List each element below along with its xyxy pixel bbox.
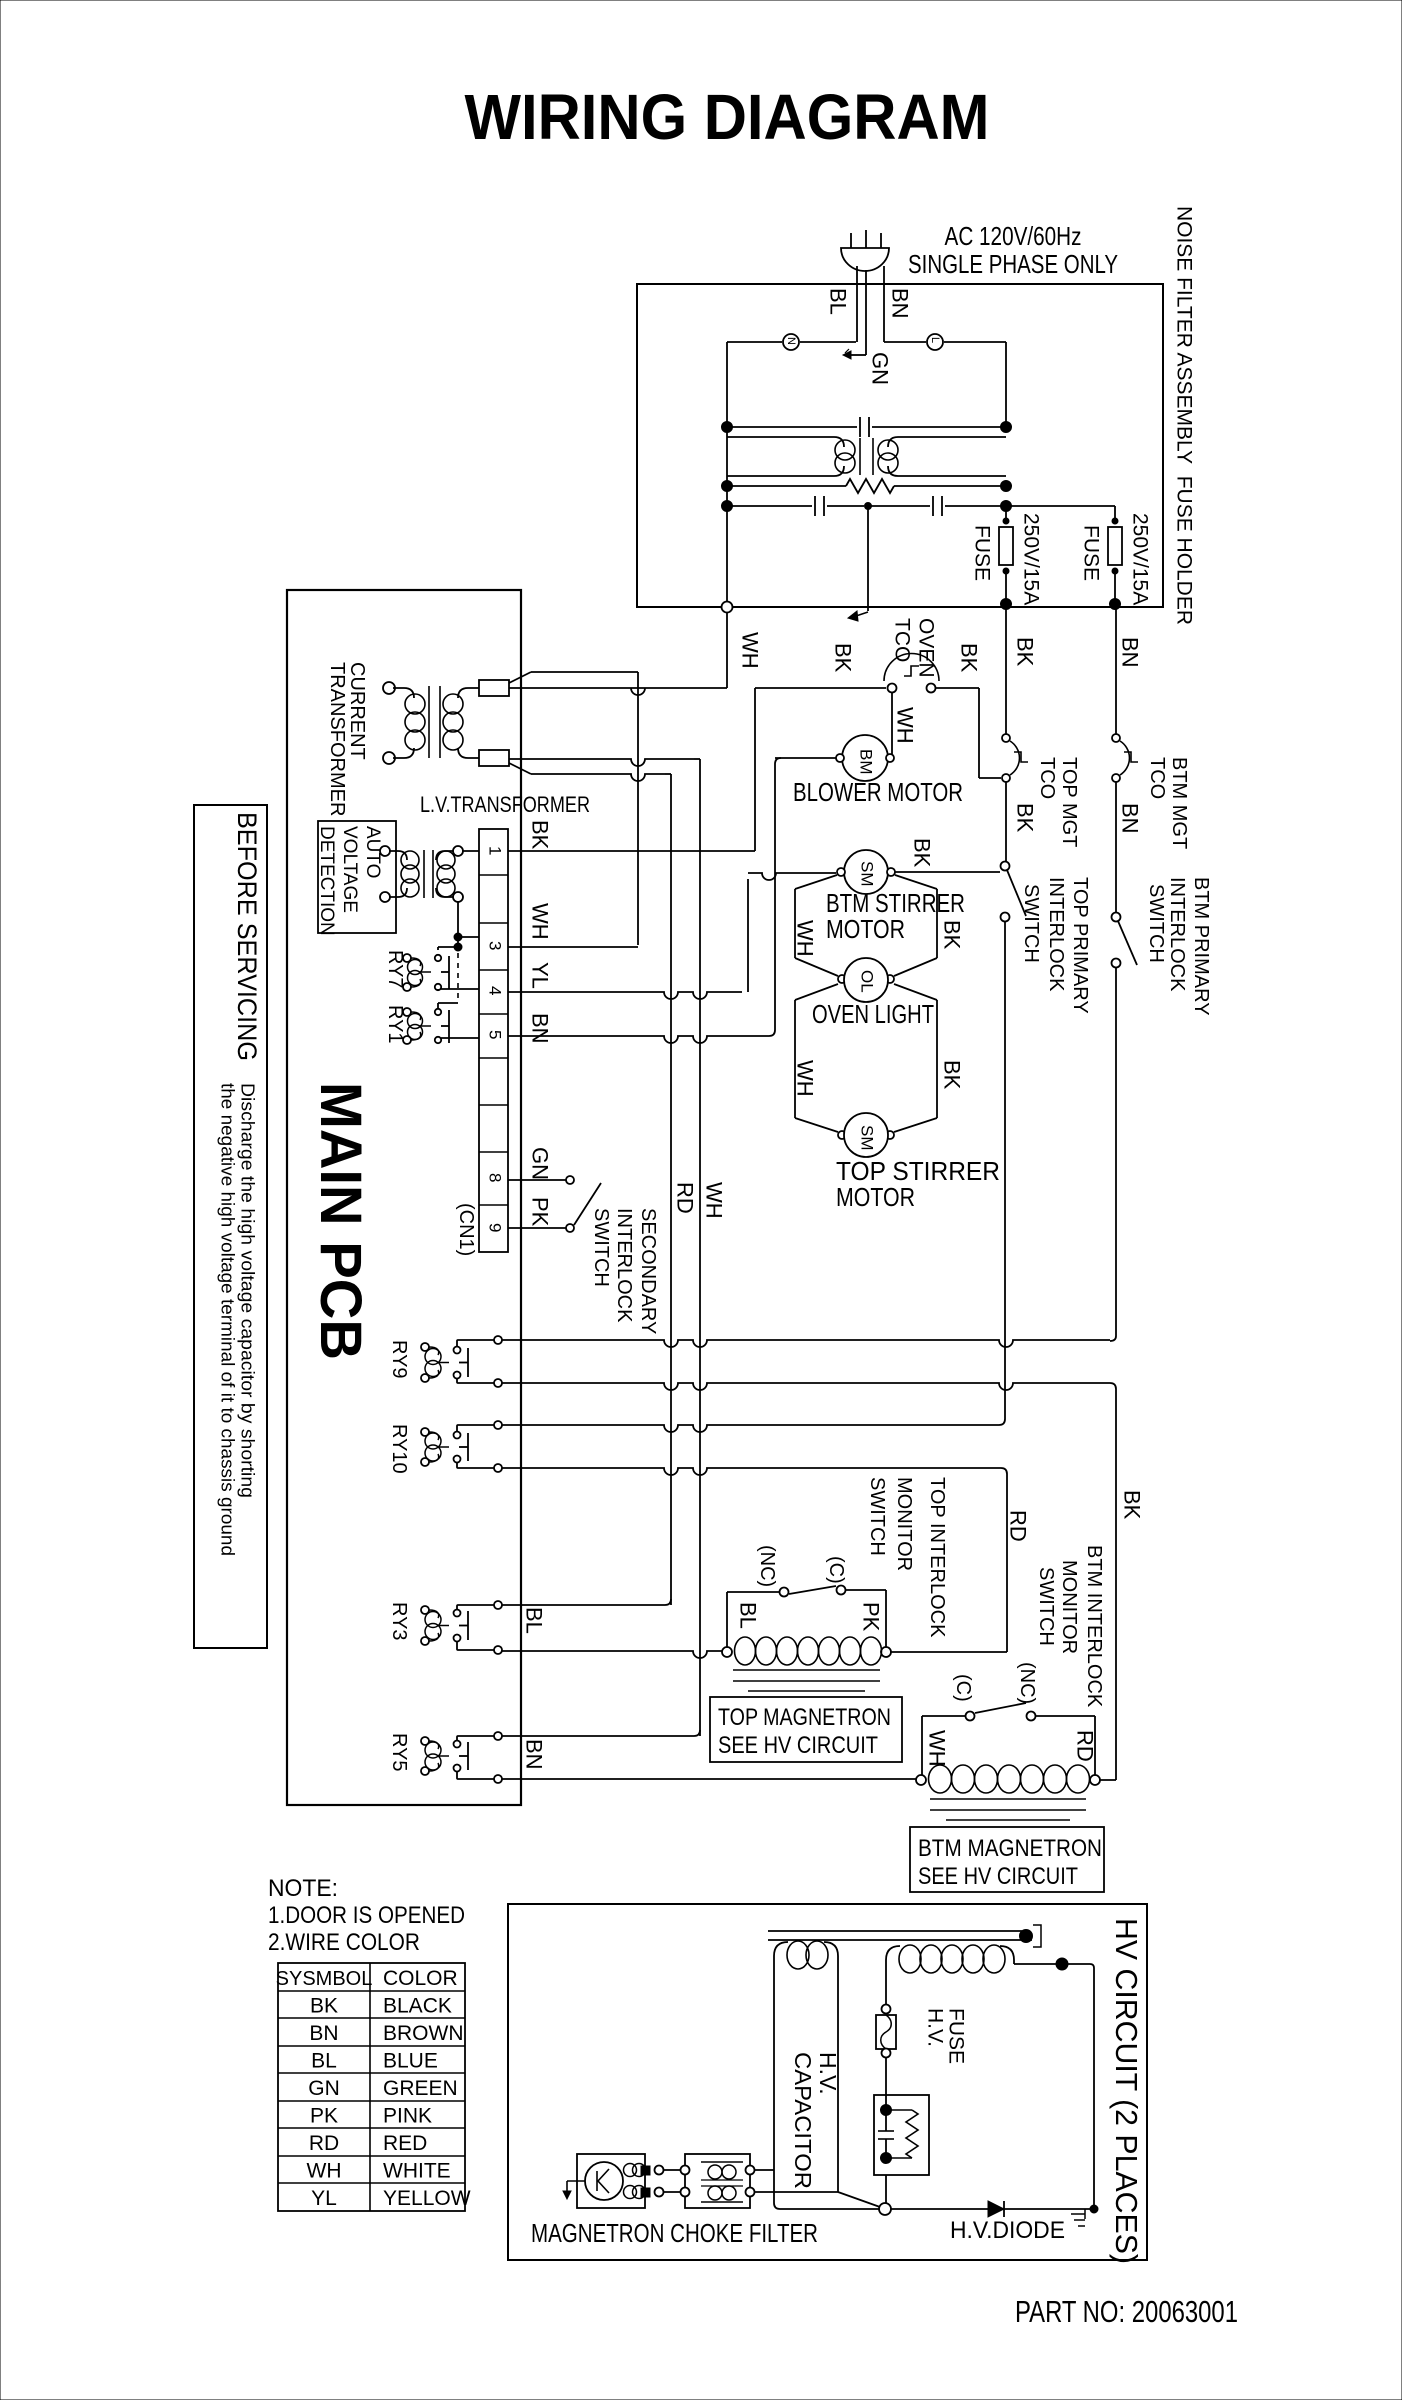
svg-text:9: 9	[486, 1223, 505, 1232]
svg-text:TCO: TCO	[1146, 757, 1168, 799]
svg-text:PK: PK	[527, 1197, 552, 1227]
svg-text:2.WIRE COLOR: 2.WIRE COLOR	[268, 1929, 420, 1956]
svg-text:BK: BK	[1012, 637, 1037, 667]
svg-text:YL: YL	[311, 2187, 337, 2210]
svg-text:RY3: RY3	[388, 1602, 410, 1641]
svg-text:SWITCH: SWITCH	[1145, 884, 1167, 963]
svg-text:BTM MAGNETRON: BTM MAGNETRON	[918, 1835, 1102, 1862]
svg-text:BK: BK	[1119, 1490, 1144, 1520]
svg-text:the negative high voltage term: the negative high voltage terminal of it…	[217, 1083, 237, 1556]
svg-text:SWITCH: SWITCH	[866, 1477, 888, 1556]
svg-text:N: N	[785, 337, 797, 345]
svg-text:SEE HV CIRCUIT: SEE HV CIRCUIT	[918, 1863, 1078, 1890]
svg-text:PK: PK	[858, 1602, 883, 1632]
svg-text:SYSMBOL: SYSMBOL	[276, 1968, 373, 1990]
svg-text:SINGLE PHASE ONLY: SINGLE PHASE ONLY	[908, 249, 1118, 279]
svg-text:BLUE: BLUE	[383, 2050, 438, 2073]
svg-text:GN: GN	[308, 2077, 340, 2100]
svg-text:WH: WH	[792, 1060, 817, 1097]
svg-text:BEFORE SERVICING: BEFORE SERVICING	[232, 812, 262, 1061]
svg-text:YELLOW: YELLOW	[383, 2187, 471, 2210]
svg-text:BN: BN	[1117, 637, 1142, 668]
svg-text:INTERLOCK: INTERLOCK	[613, 1208, 635, 1323]
svg-text:BN: BN	[309, 2022, 338, 2045]
svg-text:GN: GN	[527, 1147, 552, 1180]
svg-text:MONITOR: MONITOR	[893, 1477, 915, 1571]
svg-text:FUSE: FUSE	[1080, 525, 1103, 581]
svg-text:MOTOR: MOTOR	[836, 1182, 915, 1212]
svg-text:MAGNETRON CHOKE FILTER: MAGNETRON CHOKE FILTER	[531, 2218, 818, 2248]
svg-text:BTM MGT: BTM MGT	[1168, 757, 1190, 849]
svg-text:250V/15A: 250V/15A	[1129, 513, 1152, 605]
svg-text:Discharge the high voltage cap: Discharge the high voltage capacitor by …	[237, 1083, 257, 1498]
svg-text:BM: BM	[857, 749, 876, 775]
svg-text:(NC): (NC)	[1016, 1662, 1038, 1704]
svg-text:OVEN: OVEN	[915, 618, 938, 678]
svg-text:WH: WH	[924, 1730, 949, 1767]
svg-text:RED: RED	[383, 2132, 427, 2155]
svg-text:BK: BK	[956, 643, 981, 673]
svg-text:BK: BK	[830, 643, 855, 673]
svg-text:250V/15A: 250V/15A	[1020, 513, 1043, 605]
svg-text:1: 1	[486, 846, 505, 855]
svg-text:H.V.: H.V.	[924, 2008, 947, 2047]
svg-text:SWITCH: SWITCH	[1020, 884, 1042, 963]
svg-text:NOTE:: NOTE:	[268, 1875, 338, 1902]
svg-text:RY9: RY9	[388, 1340, 410, 1379]
svg-text:H.V.: H.V.	[815, 2052, 841, 2095]
svg-text:FUSE: FUSE	[971, 525, 994, 581]
svg-text:WH: WH	[527, 903, 552, 940]
svg-text:WH: WH	[737, 632, 762, 669]
svg-text:BK: BK	[939, 1060, 964, 1090]
svg-text:4: 4	[486, 986, 505, 995]
svg-text:AC 120V/60Hz: AC 120V/60Hz	[945, 221, 1082, 251]
svg-text:NOISE FILTER ASSEMBLY FUSE HO: NOISE FILTER ASSEMBLY FUSE HOLDER	[1173, 206, 1196, 625]
svg-text:BTM PRIMARY: BTM PRIMARY	[1190, 877, 1212, 1016]
svg-text:L: L	[929, 337, 941, 343]
svg-text:WIRING DIAGRAM: WIRING DIAGRAM	[465, 81, 990, 153]
svg-text:SWITCH: SWITCH	[590, 1208, 612, 1287]
svg-text:OL: OL	[858, 970, 877, 993]
svg-text:WH: WH	[307, 2160, 342, 2183]
svg-text:RY1: RY1	[384, 1005, 406, 1044]
svg-text:MOTOR: MOTOR	[826, 914, 905, 944]
svg-text:RD: RD	[672, 1182, 697, 1214]
svg-text:(C): (C)	[952, 1674, 974, 1702]
svg-text:TRANSFORMER: TRANSFORMER	[326, 662, 348, 816]
svg-text:BL: BL	[735, 1602, 760, 1629]
svg-text:BK: BK	[1012, 803, 1037, 833]
svg-text:BL: BL	[521, 1607, 546, 1634]
svg-text:BK: BK	[939, 920, 964, 950]
svg-text:VOLTAGE: VOLTAGE	[339, 826, 360, 913]
svg-text:INTERLOCK: INTERLOCK	[1045, 877, 1067, 992]
svg-text:WH: WH	[701, 1182, 726, 1219]
svg-text:SM: SM	[858, 861, 877, 887]
svg-text:TOP INTERLOCK: TOP INTERLOCK	[926, 1477, 948, 1638]
svg-text:H.V.DIODE: H.V.DIODE	[950, 2217, 1065, 2244]
svg-text:INTERLOCK: INTERLOCK	[1166, 877, 1188, 992]
svg-text:MAIN PCB: MAIN PCB	[308, 1082, 373, 1360]
svg-text:BN: BN	[1117, 803, 1142, 834]
svg-text:5: 5	[486, 1030, 505, 1039]
svg-text:MONITOR: MONITOR	[1058, 1560, 1080, 1654]
svg-text:BK: BK	[310, 1995, 338, 2018]
svg-text:RY7: RY7	[384, 950, 406, 989]
svg-text:WH: WH	[792, 920, 817, 957]
svg-text:TCO: TCO	[891, 618, 914, 662]
svg-text:BN: BN	[521, 1739, 546, 1770]
svg-text:BROWN: BROWN	[383, 2022, 464, 2045]
svg-text:COLOR: COLOR	[383, 1967, 458, 1990]
svg-text:BK: BK	[909, 838, 934, 868]
svg-text:3: 3	[486, 941, 505, 950]
svg-text:GN: GN	[867, 352, 892, 385]
svg-text:YL: YL	[527, 962, 552, 989]
svg-text:BL: BL	[825, 288, 850, 315]
svg-text:SEE HV CIRCUIT: SEE HV CIRCUIT	[718, 1732, 878, 1759]
svg-text:(CN1): (CN1)	[455, 1203, 477, 1256]
svg-text:HV CIRCUIT (2 PLACES): HV CIRCUIT (2 PLACES)	[1109, 1918, 1144, 2264]
svg-text:BK: BK	[527, 820, 552, 850]
svg-text:BL: BL	[311, 2050, 337, 2073]
svg-text:TOP PRIMARY: TOP PRIMARY	[1069, 877, 1091, 1014]
svg-text:WH: WH	[892, 707, 917, 744]
svg-text:PK: PK	[310, 2105, 338, 2128]
svg-text:SECONDARY: SECONDARY	[637, 1208, 659, 1334]
svg-text:RD: RD	[309, 2132, 339, 2155]
svg-text:OVEN LIGHT: OVEN LIGHT	[812, 999, 934, 1029]
svg-text:BLACK: BLACK	[383, 1995, 452, 2018]
svg-text:DETECTION: DETECTION	[316, 826, 337, 936]
svg-text:BTM INTERLOCK: BTM INTERLOCK	[1083, 1545, 1105, 1708]
svg-text:RD: RD	[1005, 1510, 1030, 1542]
svg-text:FUSE: FUSE	[945, 2008, 968, 2064]
svg-text:WHITE: WHITE	[383, 2160, 451, 2183]
svg-text:RD: RD	[1072, 1730, 1097, 1762]
svg-text:BN: BN	[527, 1013, 552, 1044]
svg-text:SM: SM	[858, 1125, 877, 1151]
svg-text:TOP MGT: TOP MGT	[1058, 757, 1080, 847]
svg-text:BLOWER MOTOR: BLOWER MOTOR	[793, 777, 963, 807]
svg-text:1.DOOR IS OPENED: 1.DOOR IS OPENED	[268, 1902, 465, 1929]
svg-text:RY10: RY10	[388, 1424, 410, 1474]
svg-text:TOP MAGNETRON: TOP MAGNETRON	[718, 1704, 891, 1731]
svg-text:L.V.TRANSFORMER: L.V.TRANSFORMER	[420, 792, 590, 817]
svg-text:GREEN: GREEN	[383, 2077, 458, 2100]
svg-text:CURRENT: CURRENT	[346, 662, 368, 760]
svg-text:CAPACITOR: CAPACITOR	[790, 2052, 816, 2189]
svg-text:SWITCH: SWITCH	[1035, 1567, 1057, 1646]
svg-text:(C): (C)	[825, 1556, 847, 1584]
svg-text:PINK: PINK	[383, 2105, 432, 2128]
svg-text:BN: BN	[887, 288, 912, 319]
svg-text:TCO: TCO	[1036, 757, 1058, 799]
svg-text:PART NO: 20063001: PART NO: 20063001	[1015, 2294, 1238, 2329]
svg-text:8: 8	[486, 1173, 505, 1182]
svg-text:(NC): (NC)	[756, 1545, 778, 1587]
svg-text:RY5: RY5	[388, 1733, 410, 1772]
